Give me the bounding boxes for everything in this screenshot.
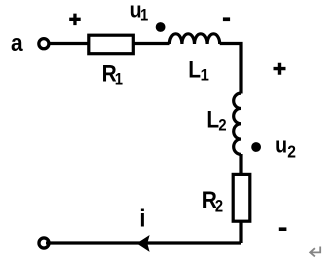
minus sign (bottom-right polarity -) (279, 227, 287, 231)
label L2 (206, 106, 219, 133)
label L1 (188, 56, 201, 83)
label R2 (202, 187, 217, 214)
wire L2 to R2 (239, 154, 242, 175)
svg-text:2: 2 (218, 117, 226, 135)
plus sign (right polarity +) (274, 63, 286, 75)
label R1 (102, 60, 117, 87)
current arrow i (pointing left) (137, 235, 150, 252)
inductor L1 (169, 34, 219, 44)
svg-text:a: a (11, 30, 23, 57)
node u1 dot (156, 22, 166, 32)
label a (11, 30, 23, 57)
terminal a (top-left open circle) (39, 39, 49, 49)
wire R2 to bottom wire (239, 221, 242, 243)
terminal bottom-left open circle (39, 238, 49, 248)
svg-text:L: L (188, 56, 201, 83)
svg-text:u: u (275, 133, 287, 158)
svg-text:2: 2 (215, 198, 223, 216)
wire terminal-a to R1 (50, 42, 89, 45)
svg-text:2: 2 (287, 141, 296, 161)
inductor L2 (234, 93, 241, 154)
svg-text:i: i (139, 204, 145, 232)
svg-text:1: 1 (140, 7, 148, 25)
label i (139, 204, 145, 232)
wire R1 to L1 (133, 42, 169, 45)
plus sign (top-left polarity +) (69, 14, 81, 26)
node u2 dot (251, 142, 261, 152)
wire L1 to top-right corner and down to L2 (220, 44, 241, 94)
paragraph return mark (310, 247, 320, 257)
label u1 (130, 0, 142, 23)
svg-text:1: 1 (115, 71, 123, 89)
svg-text:1: 1 (201, 67, 209, 85)
bottom wire (46, 241, 241, 244)
label u2 (275, 133, 287, 158)
resistor R1 (89, 35, 134, 54)
svg-text:L: L (206, 106, 219, 133)
resistor R2 (233, 174, 250, 221)
minus sign (top-right polarity -) (223, 17, 230, 21)
